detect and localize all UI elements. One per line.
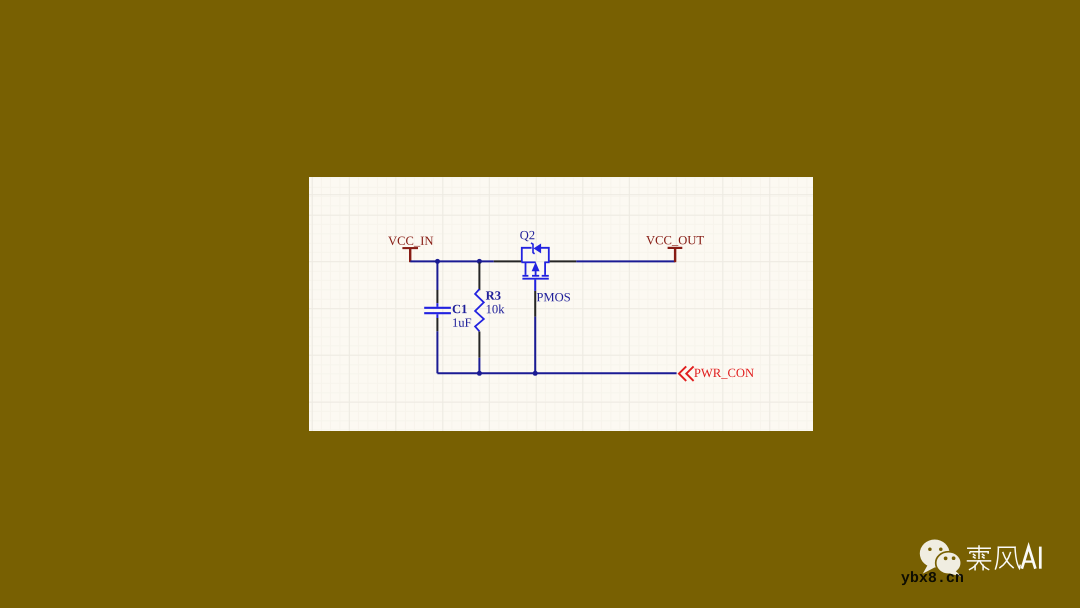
pin Q2 gate (534, 291, 536, 317)
value label 1uF (453, 318, 471, 326)
designator R3 (486, 291, 501, 299)
wire C1 branch upper (436, 260, 438, 290)
wire pin segment left of Q2 (494, 260, 522, 262)
net label PWR_CON (694, 369, 754, 379)
value label 10k (487, 304, 505, 313)
wire VCC_IN to Q2 (blue part) (410, 260, 494, 262)
wire pin segment right of Q2 (550, 260, 577, 262)
capacitor C1 (424, 303, 451, 318)
resistor R3 (475, 289, 484, 331)
port PWR_CON chevrons (679, 366, 694, 381)
wire C1 to bottom net (436, 331, 438, 373)
wire R3 to bottom net (478, 358, 480, 374)
junction node at C1 branch (435, 259, 440, 264)
power port VCC_IN (402, 248, 418, 262)
net label VCC_IN (388, 237, 433, 247)
net label VCC_OUT (646, 236, 704, 246)
wire Q2 to VCC_OUT (576, 260, 675, 262)
pin C1 bottom (436, 318, 438, 331)
pin R3 bottom (478, 332, 480, 358)
pin R3 top (478, 262, 480, 290)
junction node R3 bottom (477, 371, 482, 376)
junction node at R3 branch (477, 259, 482, 264)
power port VCC_OUT (668, 248, 683, 262)
wire gate to bottom net (534, 317, 536, 374)
junction node gate bottom (533, 371, 538, 376)
wire bottom net (437, 372, 676, 374)
pin C1 top (436, 290, 438, 303)
value label PMOS (537, 293, 570, 301)
designator C1 (453, 305, 467, 313)
watermark url ybx8.cn (901, 571, 963, 585)
transistor Q2 PMOS symbol (521, 243, 549, 291)
designator Q2 (520, 231, 534, 241)
